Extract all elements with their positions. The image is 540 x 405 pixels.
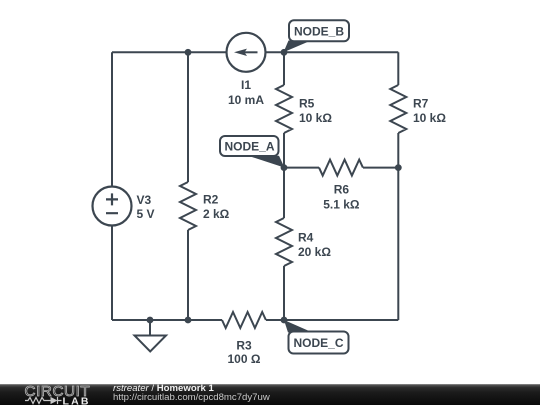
svg-text:NODE_C: NODE_C [293, 336, 343, 350]
svg-text:20 kΩ: 20 kΩ [298, 245, 331, 259]
svg-text:10 kΩ: 10 kΩ [299, 111, 332, 125]
svg-text:V3: V3 [137, 193, 152, 207]
svg-text:100 Ω: 100 Ω [228, 352, 261, 366]
svg-text:10 mA: 10 mA [228, 93, 264, 107]
svg-text:5 V: 5 V [137, 207, 155, 221]
svg-text:R7: R7 [413, 97, 429, 111]
svg-text:5.1 kΩ: 5.1 kΩ [323, 198, 360, 212]
svg-text:R5: R5 [299, 97, 315, 111]
svg-text:2 kΩ: 2 kΩ [203, 207, 230, 221]
svg-text:http://circuitlab.com/cpcd8mc7: http://circuitlab.com/cpcd8mc7dy7uw [113, 392, 270, 403]
svg-text:LAB: LAB [63, 396, 91, 405]
svg-text:I1: I1 [241, 78, 251, 92]
svg-text:R3: R3 [236, 339, 252, 353]
svg-text:R2: R2 [203, 193, 219, 207]
svg-text:R6: R6 [334, 183, 350, 197]
svg-text:10 kΩ: 10 kΩ [413, 111, 446, 125]
svg-text:NODE_A: NODE_A [224, 140, 274, 154]
svg-text:R4: R4 [298, 231, 314, 245]
svg-text:NODE_B: NODE_B [294, 24, 344, 38]
